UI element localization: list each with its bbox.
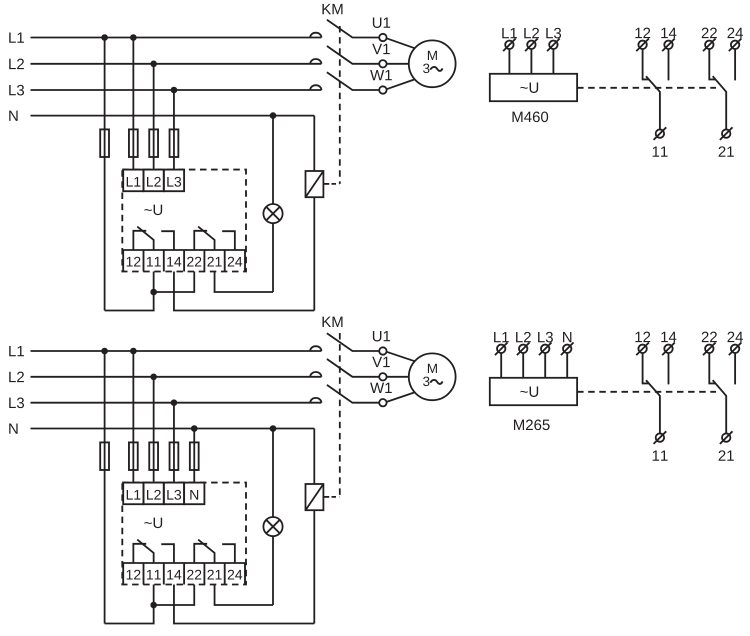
motor terminal U1	[379, 347, 386, 354]
M460 input terminal L1 (screw)	[505, 41, 513, 49]
wire terminal 21 to signal lamp (top circuit)	[215, 272, 273, 293]
terminal strip separator 5 (bottom circuit)	[224, 563, 226, 585]
motor terminal label V1	[372, 357, 390, 367]
wire U1 to motor (top circuit)	[387, 38, 415, 48]
M265 input terminal label L1	[494, 332, 509, 342]
relay output terminal label 22 (top circuit)	[187, 257, 201, 267]
terminal strip separator 0 (top circuit)	[122, 250, 124, 272]
contactor KM moving contact (V1 phase) (top circuit)	[327, 46, 379, 64]
motor terminal label U1	[373, 331, 390, 341]
wire coil to terminal 14 (top circuit)	[313, 197, 315, 310]
M265 input terminal label L2	[516, 332, 531, 342]
relay output terminal label 12 (bottom circuit)	[127, 570, 141, 580]
wire V1 to motor (bottom circuit)	[387, 376, 409, 378]
motor terminal W1	[379, 86, 386, 93]
M265 terminal 12 (screw)	[638, 345, 646, 353]
contactor KM moving contact (W1 phase) (top circuit)	[327, 72, 379, 90]
wire lamp to terminal 21 (top circuit)	[272, 223, 274, 292]
M460 model label	[512, 112, 548, 123]
fuse F3 (bottom circuit)	[149, 442, 158, 470]
relay output terminal label 21 (bottom circuit)	[207, 570, 221, 580]
wire L3 bus (top circuit)	[31, 89, 322, 91]
fuse F2 (bottom circuit)	[129, 442, 138, 470]
wire terminal 11 to terminal 22 (bottom circuit)	[154, 585, 195, 606]
M265 dashed link to contacts	[577, 391, 716, 393]
wire drop from L1 to relay contact common (bottom circuit)	[104, 351, 106, 624]
M460 input terminal label L1	[502, 28, 517, 38]
M265 input terminal N (screw)	[563, 345, 571, 353]
motor terminal V1	[379, 60, 386, 67]
terminal strip separator 6 (top circuit)	[244, 250, 246, 272]
wire W1 to motor (bottom circuit)	[387, 392, 415, 402]
junction dot on N for lamp branch (top circuit)	[270, 112, 277, 119]
M265 contact moving arm 21	[713, 380, 727, 433]
wire supply drop to terminal 11 (bottom circuit)	[105, 585, 154, 624]
M265 contact 22 lead and foot	[709, 353, 716, 383]
M265 contact 24 open lead	[734, 353, 736, 384]
contactor KM fixed contact (V1 phase) (bottom circuit)	[310, 372, 321, 377]
relay input terminal box L3 (bottom circuit)	[164, 483, 184, 505]
relay input terminal box L2 (top circuit)	[144, 170, 164, 192]
M265 terminal 22 label	[702, 332, 717, 342]
relay output terminal label 14 (top circuit)	[167, 257, 181, 267]
M460 terminal 21 label	[719, 146, 734, 156]
fuse F5 (bottom circuit)	[190, 442, 199, 470]
net L3 label (top circuit)	[9, 85, 24, 96]
contactor KM dashed actuating line (top circuit)	[339, 26, 341, 184]
M265 terminal 14 (screw)	[664, 345, 672, 353]
contactor KM moving contact (V1 phase) (bottom circuit)	[327, 359, 379, 377]
wire drop from L1 to relay contact common (top circuit)	[104, 38, 106, 311]
fuse F4 (top circuit)	[170, 129, 179, 157]
motor terminal W1	[379, 399, 386, 406]
wire terminal 14 to contactor coil (bottom circuit)	[174, 585, 314, 624]
M265 input terminal label N	[563, 332, 571, 342]
junction dot on L1 at supply drop (bottom circuit)	[101, 348, 108, 355]
relay output terminal label 11 (top circuit)	[147, 257, 161, 267]
wire terminal 11 to terminal 22 (top circuit)	[154, 272, 195, 293]
wire L3 bus (bottom circuit)	[31, 402, 322, 404]
M265 terminal 21 (screw)	[722, 433, 730, 441]
coil mechanical link stub (bottom circuit)	[323, 496, 329, 498]
M460 terminal 24 (screw)	[731, 41, 739, 49]
junction dot on L2 (top circuit)	[150, 61, 157, 68]
M265 terminal 24 label	[728, 332, 743, 342]
M265 relay body	[490, 378, 577, 405]
contactor KM moving contact (W1 phase) (bottom circuit)	[327, 385, 379, 403]
wire L3 into M265	[544, 353, 546, 378]
M460 contact 12 lead and foot	[643, 49, 650, 79]
contactor KM fixed contact (U1 phase) (bottom circuit)	[310, 346, 321, 351]
wire L2 bus (bottom circuit)	[31, 376, 322, 378]
M460 input terminal label L2	[524, 28, 539, 38]
net L1 label (top circuit)	[9, 32, 24, 42]
M460 input terminal L2 (screw)	[527, 41, 535, 49]
contactor KM moving contact (U1 phase) (bottom circuit)	[327, 333, 379, 351]
fuse F4 (bottom circuit)	[170, 442, 179, 470]
M460 terminal 11 (screw)	[656, 129, 664, 137]
relay contact 22-21-24 NO side riser (bottom circuit)	[222, 544, 235, 563]
terminal strip separator 2 (top circuit)	[163, 250, 165, 272]
fuse F3 (top circuit)	[149, 129, 158, 157]
wire N to signal lamp (bottom circuit)	[272, 429, 274, 518]
relay output terminal label 24 (top circuit)	[228, 257, 242, 267]
coil mechanical link stub (top circuit)	[323, 183, 329, 185]
relay contact 22-21-24 moving arm (top circuit)	[198, 227, 214, 250]
wire N bus (bottom circuit)	[31, 428, 315, 430]
wire V1 to motor (top circuit)	[387, 63, 409, 65]
relay output terminal label 12 (top circuit)	[127, 257, 141, 267]
wire drop L1 to relay terminal L1 (top circuit)	[132, 38, 134, 170]
M265 contact 12 lead and foot	[643, 353, 650, 383]
motor M 3~ (top circuit)	[409, 40, 456, 87]
wire drop N to relay terminal N (bottom circuit)	[193, 429, 195, 483]
phase monitoring relay dashed enclosure (top circuit)	[122, 170, 246, 272]
M265 input terminal L3 (screw)	[541, 345, 549, 353]
wire drop L3 to relay terminal L3 (bottom circuit)	[173, 403, 175, 483]
contactor coil KM (top circuit)	[306, 171, 324, 197]
wire L2 bus (top circuit)	[31, 63, 322, 65]
terminal strip separator 3 (bottom circuit)	[183, 563, 185, 585]
motor terminal label U1	[373, 17, 390, 27]
M460 input terminal label L3	[546, 28, 561, 39]
wire N bus (top circuit)	[31, 115, 315, 117]
fuse F2 (top circuit)	[129, 129, 138, 157]
M460 terminal 11 label	[653, 146, 668, 156]
junction dot on L1 at measuring drop (bottom circuit)	[130, 348, 137, 355]
junction dot on L3 (bottom circuit)	[171, 399, 178, 406]
relay output terminal label 21 (top circuit)	[207, 257, 221, 267]
contactor KM fixed contact (V1 phase) (top circuit)	[310, 59, 321, 64]
M460 terminal 14 (screw)	[664, 41, 672, 49]
contactor KM fixed contact (U1 phase) (top circuit)	[310, 33, 321, 38]
wire supply drop to terminal 11 (top circuit)	[105, 272, 154, 311]
relay output terminal strip line (bottom circuit)	[122, 562, 246, 564]
relay contact 12-11-14 NO side riser (top circuit)	[161, 231, 174, 250]
M460 relay body	[490, 74, 577, 101]
terminal strip separator 4 (top circuit)	[203, 250, 205, 272]
M265 contact 14 open lead	[668, 353, 670, 384]
M265 terminal 24 (screw)	[731, 345, 739, 353]
wire W1 to motor (top circuit)	[387, 79, 415, 89]
motor terminal V1	[379, 373, 386, 380]
terminal strip separator 0 (bottom circuit)	[122, 563, 124, 585]
M265 terminal 14 label	[661, 332, 676, 342]
motor terminal label V1	[372, 44, 390, 54]
wire L2 into M265	[522, 353, 524, 378]
M460 contact 24 open lead	[734, 49, 736, 80]
M460 terminal 22 label	[702, 28, 717, 38]
phase monitoring relay dashed enclosure (bottom circuit)	[122, 483, 246, 585]
wire N to contactor coil KM (top circuit)	[313, 116, 315, 171]
relay output terminal strip line (top circuit)	[122, 249, 246, 251]
M265 contact moving arm 11	[646, 380, 660, 433]
contactor KM dashed actuating line (bottom circuit)	[339, 333, 341, 497]
M265 terminal 11 label	[653, 450, 668, 460]
M460 input terminal L3 (screw)	[549, 41, 557, 49]
wire drop L2 to relay terminal L2 (top circuit)	[153, 64, 155, 170]
relay input terminal box L2 (bottom circuit)	[144, 483, 164, 505]
M265 input terminal L1 (screw)	[497, 345, 505, 353]
signal lamp (bottom circuit)	[263, 517, 282, 536]
M265 input terminal label L3	[538, 332, 553, 343]
junction dot on N at measuring drop (bottom circuit)	[191, 425, 198, 432]
relay output terminal label 22 (bottom circuit)	[187, 570, 201, 580]
relay input terminal box L3 (top circuit)	[164, 170, 184, 192]
M265 model label	[514, 420, 550, 431]
terminal strip separator 1 (bottom circuit)	[143, 563, 145, 585]
wire U1 to motor (bottom circuit)	[387, 352, 415, 361]
M460 terminal 21 (screw)	[722, 129, 730, 137]
junction dot on L3 (top circuit)	[171, 87, 178, 94]
wire L1 bus (bottom circuit)	[31, 350, 322, 352]
relay contact 12-11-14 moving arm (bottom circuit)	[137, 540, 153, 563]
relay output terminal label 24 (bottom circuit)	[228, 570, 242, 580]
signal lamp (top circuit)	[263, 204, 282, 223]
wire L2 into M460	[530, 49, 532, 74]
M265 terminal 12 label	[635, 332, 650, 342]
M460 contact 22 lead and foot	[709, 49, 716, 79]
wire coil to terminal 14 (bottom circuit)	[313, 510, 315, 623]
wire L1 into M460	[508, 49, 510, 74]
motor M 3~ (bottom circuit)	[409, 353, 456, 400]
wire drop L3 to relay terminal L3 (top circuit)	[173, 90, 175, 170]
wire N into M265	[566, 353, 568, 378]
junction dot on L2 (bottom circuit)	[150, 374, 157, 381]
net L2 label (top circuit)	[9, 59, 24, 69]
relay output terminal label 11 (bottom circuit)	[147, 570, 161, 580]
relay function label ~U (top circuit)	[144, 205, 162, 215]
net L3 label (bottom circuit)	[9, 398, 24, 409]
wire N to signal lamp (top circuit)	[272, 116, 274, 204]
wire L1 into M265	[500, 353, 502, 378]
relay function label ~U (bottom circuit)	[144, 518, 162, 528]
relay contact 22-21-24 NO side riser (top circuit)	[222, 231, 235, 250]
M265 terminal 21 label	[719, 450, 734, 460]
fuse F1 (bottom circuit)	[100, 442, 109, 470]
relay changeover contact 12-11-14 riser/bar (top circuit)	[133, 231, 146, 250]
terminal strip separator 6 (bottom circuit)	[244, 563, 246, 585]
motor terminal U1	[379, 34, 386, 41]
relay input terminal box L1 (top circuit)	[123, 170, 143, 192]
M460 terminal 14 label	[661, 28, 676, 38]
terminal strip separator 2 (bottom circuit)	[163, 563, 165, 585]
junction dot on L1 at measuring drop (top circuit)	[130, 34, 137, 41]
wire L3 into M460	[552, 49, 554, 74]
relay contact 22-21-24 moving arm (bottom circuit)	[198, 540, 214, 563]
junction dot on N for lamp branch (bottom circuit)	[270, 425, 277, 432]
contactor KM fixed contact (W1 phase) (bottom circuit)	[310, 398, 321, 403]
relay input terminal box N (bottom circuit)	[184, 483, 204, 505]
contactor KM label (top circuit)	[322, 4, 342, 14]
net L2 label (bottom circuit)	[9, 372, 24, 382]
M460 terminal 22 (screw)	[705, 41, 713, 49]
M460 contact moving arm 11	[646, 76, 660, 129]
junction dot terminal 11 branch (top circuit)	[150, 289, 157, 296]
relay changeover contact 22-21-24 riser/bar (top circuit)	[194, 231, 207, 250]
M265 terminal 22 (screw)	[705, 345, 713, 353]
terminal strip separator 5 (top circuit)	[224, 250, 226, 272]
relay output terminal label 14 (bottom circuit)	[167, 570, 181, 580]
net L1 label (bottom circuit)	[9, 346, 24, 356]
wire terminal 21 to signal lamp (bottom circuit)	[215, 585, 273, 606]
wire terminal 14 to contactor coil (top circuit)	[174, 272, 314, 311]
junction dot on L1 at supply drop (top circuit)	[101, 34, 108, 41]
contactor KM label (bottom circuit)	[322, 317, 342, 327]
M460 dashed link to contacts	[577, 87, 716, 89]
terminal strip separator 3 (top circuit)	[183, 250, 185, 272]
relay changeover contact 12-11-14 riser/bar (bottom circuit)	[133, 544, 146, 563]
fuse F1 (top circuit)	[100, 129, 109, 157]
motor terminal label W1	[370, 70, 392, 80]
net N label (bottom circuit)	[9, 423, 17, 433]
terminal strip separator 1 (top circuit)	[143, 250, 145, 272]
contactor coil KM (bottom circuit)	[306, 484, 324, 510]
relay changeover contact 22-21-24 riser/bar (bottom circuit)	[194, 544, 207, 563]
wire drop L2 to relay terminal L2 (bottom circuit)	[153, 377, 155, 483]
net N label (top circuit)	[9, 111, 17, 121]
motor terminal label W1	[370, 383, 392, 393]
relay contact 12-11-14 moving arm (top circuit)	[137, 227, 153, 250]
contactor KM fixed contact (W1 phase) (top circuit)	[310, 85, 321, 90]
M265 terminal 11 (screw)	[656, 433, 664, 441]
relay contact 12-11-14 NO side riser (bottom circuit)	[161, 544, 174, 563]
M460 contact moving arm 21	[713, 76, 727, 129]
M460 contact 14 open lead	[668, 49, 670, 80]
M460 terminal 24 label	[728, 28, 743, 38]
terminal strip separator 4 (bottom circuit)	[203, 563, 205, 585]
wire N to contactor coil KM (bottom circuit)	[313, 429, 315, 485]
wire lamp to terminal 21 (bottom circuit)	[272, 536, 274, 605]
relay input terminal box L1 (bottom circuit)	[123, 483, 143, 505]
M265 input terminal L2 (screw)	[519, 345, 527, 353]
wire drop L1 to relay terminal L1 (bottom circuit)	[132, 351, 134, 483]
M460 terminal 12 label	[635, 28, 650, 38]
M460 terminal 12 (screw)	[638, 41, 646, 49]
contactor KM moving contact (U1 phase) (top circuit)	[327, 20, 379, 38]
wire L1 bus (top circuit)	[31, 37, 322, 39]
junction dot terminal 11 branch (bottom circuit)	[150, 602, 157, 609]
